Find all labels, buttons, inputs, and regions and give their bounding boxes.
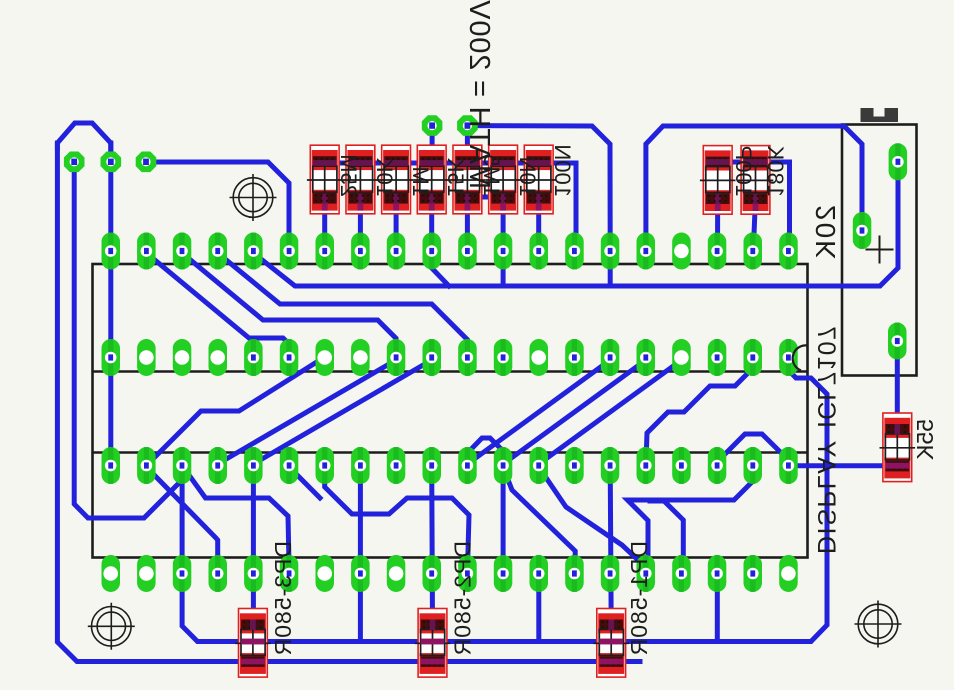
pad row1 pin12	[494, 233, 513, 270]
pad row3 pin14	[565, 447, 584, 484]
pad X3 test point	[136, 152, 157, 173]
IC connector outline main rectangle	[93, 264, 808, 558]
IC1 outline lower edge	[93, 370, 808, 373]
wire X4 pad down to R4 top	[430, 126, 435, 163]
pad row1 pin3	[173, 233, 192, 270]
resistor DP3 580R	[239, 609, 268, 678]
pad row4 pin4	[209, 555, 228, 592]
pad row3 pin18	[708, 447, 727, 484]
wire IC1 chevron row1 pin4 to row2 pin11	[218, 253, 468, 358]
wire mid bump row3 pin18 to row3 pin20	[717, 434, 788, 466]
pad row3 pin6	[280, 447, 299, 484]
wire X5 pad down to R5 top	[465, 126, 470, 163]
wire IC2 diagonal row3 pin13 to row4 pin16	[539, 467, 647, 574]
svg-text:1M5: 1M5	[479, 154, 504, 197]
IC1 pin1 notch	[793, 345, 808, 370]
pad row1 pin14	[565, 233, 584, 270]
pad row2 pin14	[565, 339, 584, 376]
wire mid diagonal row3 pin13 to row2 pin17	[539, 360, 682, 464]
wire IC2 diagonal row3 pin2 to row4 pin4	[146, 467, 217, 574]
pad row2 pin4	[209, 339, 228, 376]
wire mid diagonal row3 pin12 to row2 pin16	[503, 360, 646, 464]
wire battery pad3 to R9 top	[895, 341, 900, 428]
wire X3 pad to row1 pin6	[146, 162, 289, 251]
battery outline	[842, 125, 917, 376]
wire bus stub row1 pin15	[608, 251, 613, 286]
wire row1 pin16 to battery plus pad	[646, 126, 862, 251]
pad row3 pin20	[779, 447, 798, 484]
pad row3 pin15	[601, 447, 620, 484]
pad row4 pin5	[244, 555, 263, 592]
pad row1 pin8	[351, 233, 370, 270]
pad row1 pin10	[423, 233, 442, 270]
pad row2 pin1	[102, 339, 121, 376]
pad row1 pin11	[458, 233, 477, 270]
pad row4 pin6	[280, 555, 299, 592]
svg-text:DP3-580R: DP3-580R	[270, 541, 296, 656]
pad battery B- terminal	[889, 143, 908, 180]
pad row2 pin6	[280, 339, 299, 376]
pad row1 pin4	[209, 233, 228, 270]
pad row1 pin18	[708, 233, 727, 270]
resistor DP2 580R	[418, 609, 447, 678]
pad row2 pin11	[458, 339, 477, 376]
pad row3 pin2	[137, 447, 156, 484]
wire IC2 jog row3 pin7 to row4 pin11	[325, 466, 469, 574]
resistor R7	[524, 145, 553, 214]
wire C1 C2 top chain to row1 pin20	[718, 162, 790, 251]
pad row1 pin9	[387, 233, 406, 270]
resistor R3	[382, 145, 411, 214]
pad row3 pin7	[316, 447, 335, 484]
pad row1 pin13	[530, 233, 549, 270]
svg-text:20K: 20K	[810, 205, 841, 261]
pad row4 pin8	[351, 555, 370, 592]
wire IC2 zigzag row3 pin19 to row4 pin16	[628, 466, 754, 574]
wire row4 pin13 stub to ground bus	[536, 574, 541, 642]
pad row2 pin10	[423, 339, 442, 376]
pad row3 pin19	[744, 447, 763, 484]
pad row1 pin5	[244, 233, 263, 270]
pad row2 pin9	[387, 339, 406, 376]
pad row4 pin14	[565, 555, 584, 592]
battery plus mark	[866, 236, 894, 264]
mounting hole top	[233, 178, 273, 218]
pad row2 pin16	[637, 339, 656, 376]
pad row3 pin13	[530, 447, 549, 484]
wire mid diagonal row3 pin5 to row2 pin10	[253, 360, 431, 464]
pad row2 pin17	[672, 339, 691, 376]
svg-text:15K: 15K	[443, 158, 468, 197]
wire resistor top chain	[325, 163, 576, 251]
svg-text:DP1-580R: DP1-580R	[626, 541, 652, 656]
resistor R8 55K	[883, 413, 912, 482]
pad row2 pin7	[316, 339, 335, 376]
pad row3 pin4	[209, 447, 228, 484]
pad row1 pin1	[102, 233, 121, 270]
pad row1 pin7	[316, 233, 335, 270]
wire mid staircase row2 pin19 to row3 pin16	[646, 358, 753, 466]
pad row4 pin20	[779, 555, 798, 592]
mounting hole bottom-right	[858, 604, 898, 644]
wire hairpin ground link top-left	[57, 123, 110, 162]
resistor R2	[346, 145, 375, 214]
pad X2 test point	[64, 152, 85, 173]
pad row2 pin8	[351, 339, 370, 376]
wire row4 pin18 stub to ground bus	[715, 574, 720, 642]
resistor DP1 580R	[597, 609, 626, 678]
wire main bus row1 pin5 to battery minus pad	[253, 170, 898, 286]
capacitor C2 180K	[741, 146, 770, 215]
pad row1 pin19	[744, 233, 763, 270]
pad row4 pin16	[637, 555, 656, 592]
capacitor C1 100P	[703, 146, 732, 215]
resistor R4	[417, 145, 446, 214]
pad row4 pin1	[102, 555, 121, 592]
pad row1 pin15	[601, 233, 620, 270]
pad battery snap	[888, 323, 907, 360]
svg-text:25M: 25M	[336, 154, 361, 197]
pad row4 pin7	[316, 555, 335, 592]
wire mid bump row3 pin11 to row3 pin12	[467, 438, 503, 466]
wire row3 feeder to DP3	[251, 466, 256, 626]
wire mid diagonal row3 pin2 jog to row2 pin7	[146, 360, 320, 466]
IC2 outline upper edge	[93, 451, 808, 454]
wire R5-R6 bottom link	[467, 195, 503, 200]
pad X5 test point	[457, 115, 478, 136]
svg-text:10N: 10N	[515, 157, 540, 197]
battery clip symbol	[861, 108, 899, 122]
wire bus spur row1 pin10	[432, 251, 449, 286]
pad X4 test point	[422, 115, 443, 136]
svg-text:10K: 10K	[372, 158, 397, 197]
pad row4 pin17	[672, 555, 691, 592]
wire IC2 short diagonal row3 pin6	[289, 467, 320, 498]
pad row3 pin8	[351, 447, 370, 484]
wire bus stub row1 pin12	[501, 251, 506, 286]
wire ground bus row4 pin3 to right riser	[182, 358, 827, 642]
wire mid diagonal row3 pin4 to row2 pin9	[218, 360, 396, 464]
pad row2 pin12	[494, 339, 513, 376]
wire left ground rail vertical	[57, 143, 640, 662]
wire row3 feeder to DP2	[429, 466, 435, 626]
pad battery B+ terminal	[853, 212, 872, 249]
svg-text:DP2-580R: DP2-580R	[450, 541, 476, 656]
pad row4 pin12	[494, 555, 513, 592]
wire mid diagonal row3 pin11 to row2 pin15	[467, 360, 610, 464]
svg-text:1M: 1M	[408, 166, 433, 197]
pad row4 pin11	[458, 555, 477, 592]
wire IC1 chevron row1 pin3 to row2 pin9	[182, 253, 396, 358]
mounting hole bottom-left	[92, 607, 132, 647]
pad row1 pin2	[137, 233, 156, 270]
wire row3 feeder to DP1	[610, 466, 611, 626]
pad row4 pin13	[530, 555, 549, 592]
pad row2 pin18	[708, 339, 727, 376]
pad row2 pin13	[530, 339, 549, 376]
resistor R5	[453, 145, 482, 214]
svg-text:180K: 180K	[763, 145, 788, 197]
pad row3 pin12	[494, 447, 513, 484]
wire IC1 chevron row1 pin2 to row2 pin6	[146, 253, 289, 358]
svg-text:ICL7107: ICL7107	[812, 325, 840, 428]
wire IC2 jog row3 pin3 to row4 pin6	[182, 466, 289, 574]
wire resistor bottom drops to row1	[322, 198, 327, 251]
wire row3 pin20 to R9 bottom	[790, 463, 897, 468]
wire top bus to row1 pin15	[467, 126, 610, 251]
resistor R1	[310, 145, 339, 214]
pad row4 pin9	[387, 555, 406, 592]
wire C1 C2 bottom drops	[715, 198, 720, 251]
pad row4 pin10	[423, 555, 442, 592]
pad row3 pin11	[458, 447, 477, 484]
wire row3 pin12 to row4 pin12	[501, 466, 506, 574]
pad row3 pin16	[637, 447, 656, 484]
pad row3 pin5	[244, 447, 263, 484]
pad row3 pin10	[423, 447, 442, 484]
pad row2 pin20	[779, 339, 798, 376]
wire row3 pin8 to ground bus	[358, 466, 363, 642]
wire IC2 diagonal row3 pin12 to row4 pin14	[503, 467, 575, 574]
pad row4 pin18	[708, 555, 727, 592]
svg-text:DISPLAY: DISPLAY	[812, 439, 840, 554]
pad row4 pin19	[744, 555, 763, 592]
pad row3 pin1	[102, 447, 121, 484]
pad row3 pin17	[672, 447, 691, 484]
pad row1 pin16	[637, 233, 656, 270]
pad X1 test point	[101, 152, 122, 173]
pad row3 pin3	[173, 447, 192, 484]
pad row3 pin9	[387, 447, 406, 484]
pad row2 pin19	[744, 339, 763, 376]
pad row2 pin15	[601, 339, 620, 376]
svg-text:100N: 100N	[550, 144, 575, 197]
pad row2 pin2	[137, 339, 156, 376]
pad row4 pin3	[173, 555, 192, 592]
resistor R6	[489, 145, 518, 214]
pad row4 pin2	[137, 555, 156, 592]
pad row1 pin20	[779, 233, 798, 270]
wire left sense rail from X2 pad	[74, 162, 182, 518]
pad row2 pin3	[173, 339, 192, 376]
wire IC2 stub row4 pin17	[650, 501, 683, 574]
svg-text:100P: 100P	[731, 146, 756, 197]
pad row4 pin15	[601, 555, 620, 592]
pad row1 pin17	[672, 233, 691, 270]
wire pad column X1 down to row3 pin1	[108, 143, 113, 466]
pad row2 pin5	[244, 339, 263, 376]
pad row1 pin6	[280, 233, 299, 270]
svg-text:55K: 55K	[912, 419, 938, 461]
